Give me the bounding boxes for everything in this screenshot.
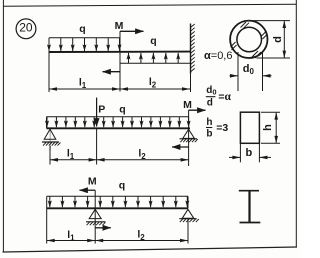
svg-text:q: q — [79, 23, 85, 35]
svg-text:20: 20 — [19, 20, 33, 34]
svg-text:d: d — [272, 36, 284, 43]
svg-text:q: q — [119, 104, 125, 116]
svg-text:h: h — [206, 117, 212, 128]
svg-text:=3: =3 — [216, 122, 228, 134]
svg-text:M: M — [115, 20, 124, 32]
svg-text:M: M — [183, 99, 192, 111]
svg-text:b: b — [206, 128, 212, 139]
svg-text:q: q — [119, 180, 125, 192]
svg-text:h: h — [262, 124, 274, 131]
svg-text:P: P — [98, 104, 105, 116]
svg-text:M: M — [88, 176, 97, 188]
svg-text:=α: =α — [218, 91, 231, 103]
svg-text:α=0,6: α=0,6 — [204, 50, 232, 62]
svg-text:q: q — [150, 35, 156, 47]
svg-text:b: b — [246, 147, 253, 159]
svg-text:d: d — [207, 98, 213, 109]
